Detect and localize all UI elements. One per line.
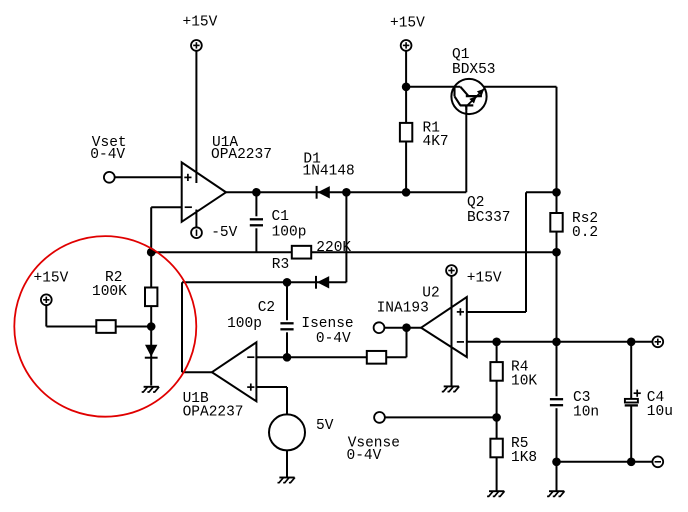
svg-text:0-4V: 0-4V xyxy=(347,448,382,464)
svg-text:+15V: +15V xyxy=(467,270,502,286)
svg-text:U2: U2 xyxy=(422,286,439,302)
svg-text:+15V: +15V xyxy=(390,16,425,32)
svg-text:Q2: Q2 xyxy=(467,195,484,211)
svg-text:1N4148: 1N4148 xyxy=(303,164,355,180)
svg-text:10n: 10n xyxy=(573,404,599,420)
svg-text:OPA2237: OPA2237 xyxy=(211,147,272,163)
svg-text:Isense: Isense xyxy=(301,316,353,332)
svg-text:+15V: +15V xyxy=(183,15,218,31)
svg-text:INA193: INA193 xyxy=(377,301,429,317)
svg-text:0.2: 0.2 xyxy=(572,225,598,241)
svg-text:0-4V: 0-4V xyxy=(316,331,351,347)
svg-text:100K: 100K xyxy=(92,284,127,300)
svg-text:0-4V: 0-4V xyxy=(90,147,125,163)
svg-text:5V: 5V xyxy=(316,418,334,434)
svg-text:C2: C2 xyxy=(258,300,275,316)
svg-text:10u: 10u xyxy=(647,404,673,420)
svg-text:+15V: +15V xyxy=(34,270,69,286)
svg-text:OPA2237: OPA2237 xyxy=(183,405,244,421)
svg-text:1K8: 1K8 xyxy=(511,450,537,466)
svg-text:10K: 10K xyxy=(511,374,537,390)
svg-text:C1: C1 xyxy=(272,209,289,225)
svg-text:100p: 100p xyxy=(272,225,307,241)
svg-text:220K: 220K xyxy=(316,240,351,256)
svg-text:R3: R3 xyxy=(272,257,289,273)
svg-text:4K7: 4K7 xyxy=(423,134,449,150)
svg-text:100p: 100p xyxy=(227,316,262,332)
svg-text:-5V: -5V xyxy=(211,225,237,241)
svg-text:BDX53: BDX53 xyxy=(452,62,496,78)
svg-text:Q1: Q1 xyxy=(452,47,469,63)
svg-text:BC337: BC337 xyxy=(467,210,511,226)
